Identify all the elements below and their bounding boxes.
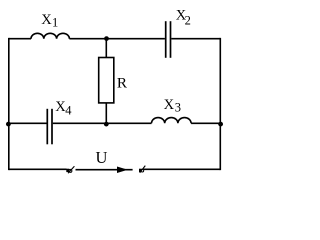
wire R branch bottom bbox=[105, 103, 107, 123]
svg-text:3: 3 bbox=[175, 100, 181, 114]
svg-text:U: U bbox=[96, 148, 108, 167]
wire right vertical bbox=[219, 38, 221, 170]
capacitor X4 bbox=[47, 109, 52, 145]
wire bottom right segment bbox=[144, 168, 221, 170]
node middle left junction bbox=[6, 122, 11, 127]
svg-text:X: X bbox=[41, 12, 52, 28]
wire top right segment bbox=[171, 38, 220, 40]
terminal right bbox=[139, 166, 145, 173]
wire middle left segment bbox=[9, 122, 47, 124]
svg-text:4: 4 bbox=[65, 104, 72, 118]
wire bottom left segment bbox=[9, 168, 67, 170]
node middle right junction bbox=[218, 122, 223, 127]
node top junction bbox=[104, 36, 109, 41]
voltage U arrowhead bbox=[117, 167, 128, 174]
voltage U arrow line bbox=[76, 169, 133, 171]
wire middle segment cap to node bbox=[53, 122, 152, 124]
svg-text:2: 2 bbox=[185, 14, 191, 28]
svg-text:R: R bbox=[117, 75, 128, 92]
terminal left bbox=[66, 166, 74, 173]
svg-text:1: 1 bbox=[52, 16, 58, 30]
capacitor X2 bbox=[166, 21, 171, 58]
wire top left segment bbox=[9, 38, 31, 40]
wire middle right segment bbox=[191, 122, 220, 124]
wire R branch top bbox=[105, 39, 107, 58]
inductor X3 bbox=[152, 118, 192, 124]
wire left vertical bbox=[8, 38, 10, 170]
svg-text:X: X bbox=[164, 97, 175, 113]
node middle center junction bbox=[104, 122, 109, 127]
wire top middle segment bbox=[69, 38, 164, 40]
resistor R bbox=[99, 58, 114, 103]
inductor X1 bbox=[31, 33, 69, 38]
